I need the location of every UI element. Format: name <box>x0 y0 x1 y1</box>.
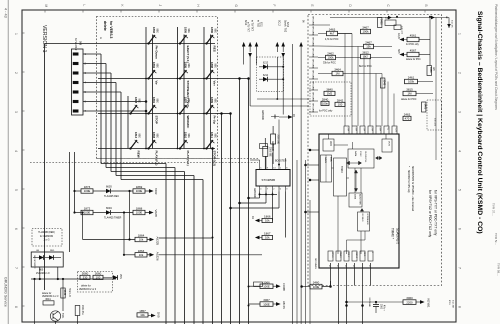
signal arrow UB-SS <box>273 303 276 305</box>
svg-text:E: E <box>310 5 314 7</box>
svg-text:for VERSION: for VERSION <box>40 236 54 238</box>
svg-text:100k: 100k <box>362 30 369 34</box>
diode 6060 <box>103 277 113 279</box>
ic TIM40 bottom pin boxes <box>328 251 333 261</box>
resistor 3843 vertical <box>381 78 385 88</box>
svg-text:10k: 10k <box>265 236 270 240</box>
svg-text:SYNC: SYNC <box>359 151 361 157</box>
svg-text:DATA: DATA <box>354 151 357 157</box>
signal stub to TU-TXT <box>248 42 252 47</box>
svg-text:Ph-Down: Ph-Down <box>155 46 159 59</box>
svg-text:SD 5: SD 5 <box>363 252 365 256</box>
wire matrix column 4 elbow to bus <box>115 83 117 176</box>
svg-text:100E: 100E <box>136 211 143 215</box>
ic wire TIM40 to pin <box>337 196 339 254</box>
ic left edge stubs <box>310 149 319 151</box>
wires B60 to rail <box>39 267 41 279</box>
svg-text:2SC2291 I-O: 2SC2291 I-O <box>36 273 50 275</box>
resistor 2068 vertical above STV <box>271 134 276 144</box>
key switch 1801 STOP <box>147 112 149 114</box>
key switch 1806 RES <box>205 42 207 44</box>
svg-text:5: 5 <box>14 189 18 191</box>
svg-text:100k: 100k <box>408 80 415 84</box>
ic sub-block DAVN IBML <box>321 155 332 182</box>
resistor 3480 small box <box>254 282 263 287</box>
wire 4567 to right vertical <box>419 54 430 56</box>
svg-text:DAVN: DAVN <box>324 157 327 163</box>
right area connecting wires <box>318 24 330 26</box>
right vertical wire 436 <box>435 18 437 161</box>
wire from connector pin 1 <box>83 53 101 55</box>
svg-text:6211: 6211 <box>260 22 262 28</box>
signal stub 5V <box>299 42 303 47</box>
svg-text:100E: 100E <box>84 211 91 215</box>
capacitor 2065 <box>274 115 276 119</box>
svg-text:H: H <box>196 5 200 7</box>
svg-text:for POC only: for POC only <box>319 110 333 113</box>
resistor 1863 10k <box>124 254 135 256</box>
svg-text:GROUNDS: GROUNDS <box>314 258 316 269</box>
svg-text:delete for: delete for <box>42 292 52 295</box>
svg-text:for VPS-TXT or PDC-TXT only: for VPS-TXT or PDC-TXT only <box>434 190 438 236</box>
wire vertical net mid 3 <box>82 213 84 240</box>
wire 3461 up to rail <box>429 17 431 66</box>
wires below IC <box>330 263 332 286</box>
svg-text:2041 47u: 2041 47u <box>81 305 83 315</box>
bus vertical wire 8 <box>230 114 232 324</box>
box 4567 delete for POC <box>407 52 419 56</box>
svg-text:VCSI: VCSI <box>395 128 397 133</box>
ic internal double arrow PLL to VCO <box>376 156 383 159</box>
ic internal double arrow ADJUSTER to I2C <box>360 209 363 213</box>
svg-text:100: 100 <box>338 103 343 107</box>
bus vertical wire 7 <box>221 114 223 324</box>
dashed box delete for VERS.3 keyboard matrix <box>97 17 218 159</box>
svg-text:GROUND: GROUND <box>312 48 314 58</box>
arrow left 4561 <box>404 39 407 41</box>
svg-text:6604: 6604 <box>106 206 112 210</box>
connector pin 1 <box>73 53 78 56</box>
svg-text:WIND/FF: WIND/FF <box>186 116 190 129</box>
resistor 1872 100E <box>73 211 75 213</box>
wires below IC continuing to bottom edge <box>338 286 340 324</box>
svg-text:6213: 6213 <box>263 63 269 65</box>
svg-text:10k: 10k <box>139 238 144 242</box>
matrix column wire extra <box>127 96 129 149</box>
svg-text:SDA5645/5680 for VPS/PDC + lin: SDA5645/5680 for VPS/PDC + line download <box>411 166 414 212</box>
signal arrow VCR <box>145 190 149 192</box>
svg-text:3465: 3465 <box>380 19 384 25</box>
resistor 3463 4k7 <box>327 31 338 35</box>
arrow left 4567 <box>404 54 407 56</box>
svg-text:SDA5642-5: SDA5642-5 <box>396 228 400 244</box>
wire from connector pin 6 <box>83 101 146 103</box>
ic STV pins bottom <box>259 186 261 192</box>
signal arrow DV5 <box>148 315 151 317</box>
wire vertical net left B <box>74 152 76 213</box>
arrow on top rail 1 <box>388 16 392 20</box>
svg-text:SCL2: SCL2 <box>278 20 280 27</box>
resistor 1041 vertical <box>61 288 65 298</box>
svg-text:for POC only: for POC only <box>406 44 420 46</box>
svg-text:100E: 100E <box>136 189 143 193</box>
svg-text:100E: 100E <box>263 285 270 289</box>
svg-text:3: 3 <box>14 111 18 113</box>
diode 6214 in AV box <box>259 78 263 80</box>
svg-text:A5226: A5226 <box>156 252 160 261</box>
wire STV bottom rail <box>260 193 278 195</box>
svg-text:COMB: COMB <box>282 283 286 291</box>
svg-text:GROUND: GROUND <box>261 110 263 120</box>
wire vertical net mid 2 <box>123 213 125 255</box>
arrow A left 1867 <box>260 237 263 239</box>
resistor 3465 vertical <box>378 18 382 28</box>
svg-text:KEYB1: KEYB1 <box>427 299 431 308</box>
signal arrow VA28 <box>145 212 149 214</box>
wire vertical net mid <box>129 191 131 240</box>
ic sub-block TIM40 <box>334 158 347 196</box>
bus vertical wire 10 <box>248 79 250 324</box>
wires STV bottom to bus <box>249 197 260 199</box>
svg-text:99E: 99E <box>213 99 216 104</box>
svg-text:6214: 6214 <box>263 75 269 77</box>
key switch 1802 Ph-Down <box>147 42 149 44</box>
svg-text:M: M <box>44 5 48 8</box>
wire matrix column 2 elbow to bus <box>105 64 107 168</box>
svg-text:7467: 7467 <box>385 18 391 20</box>
svg-text:ADJUSTER: ADJUSTER <box>359 194 362 205</box>
svg-text:SDA 3: SDA 3 <box>339 252 342 257</box>
arrow down pair <box>248 53 252 58</box>
ic U STV4056B body <box>256 170 290 187</box>
ic sub-block I2C BUS INTERFACE <box>358 212 370 231</box>
wire 3460 connections <box>302 286 310 288</box>
capacitor 7467 <box>385 20 396 26</box>
svg-text:VERSION 2 or 3: VERSION 2 or 3 <box>42 296 59 298</box>
capacitor 2463 <box>403 116 411 120</box>
svg-text:GROUND: GROUND <box>312 26 314 36</box>
capacitor 2840 <box>321 101 329 105</box>
svg-text:STOP: STOP <box>155 116 159 124</box>
svg-text:I2C-BUS: I2C-BUS <box>361 214 363 223</box>
wire h y106 <box>250 105 309 107</box>
resistor 3840 <box>324 91 335 95</box>
svg-text:for VPS+TU2 or PDC+TU2 only: for VPS+TU2 or PDC+TU2 only <box>428 190 432 238</box>
bottom dashed edge continuation <box>306 285 442 287</box>
diode 6213 in AV box <box>259 66 263 68</box>
svg-text:STV4056B: STV4056B <box>262 178 276 182</box>
svg-text:330: 330 <box>83 276 88 280</box>
svg-text:5V: 5V <box>301 20 303 23</box>
svg-text:AS: AS <box>251 216 254 220</box>
ic sub-block DATA ADJUSTER <box>349 193 362 207</box>
dashed box TLA4435 RED for VERSION 2 or 3 <box>32 229 62 247</box>
svg-text:2066 99E: 2066 99E <box>269 147 271 157</box>
svg-text:DV5: DV5 <box>157 312 161 318</box>
key switch 1812 REW <box>129 147 131 149</box>
resistor 1869 100E <box>111 190 133 192</box>
wire 2200 row to IC drop <box>347 301 404 303</box>
vertical wires down to IC top <box>344 34 346 127</box>
mid vertical wires to bottom <box>292 44 294 324</box>
wire row A5225 to bus <box>159 237 213 239</box>
resistor 2066 vertical above STV <box>263 146 268 156</box>
box 4561 for POC only <box>407 37 419 41</box>
ic wire UCO up to pin box <box>328 134 330 139</box>
svg-text:VERSION 1: VERSION 1 <box>41 25 47 53</box>
resistor 1864 10k <box>83 239 135 241</box>
svg-text:4k7: 4k7 <box>330 32 335 36</box>
svg-text:4: 4 <box>458 150 462 152</box>
resistor 3464 1M <box>332 71 343 75</box>
signal arrow COMB <box>273 285 276 287</box>
svg-text:99E: 99E <box>213 64 216 69</box>
svg-text:CLOCK P.LL: CLOCK P.LL <box>364 151 366 163</box>
svg-text:Pr-Up: Pr-Up <box>213 116 217 124</box>
svg-text:TLW 1-O: TLW 1-O <box>68 288 70 297</box>
resistor 1867 10k <box>262 235 273 239</box>
svg-text:Platinenabbildungen und Schalt: Platinenabbildungen und Schaltpläne / La… <box>494 4 498 110</box>
svg-text:delete for POC: delete for POC <box>406 58 421 61</box>
matrix row wire B <box>98 78 215 80</box>
signal arrow A5226 <box>147 254 150 256</box>
svg-text:99E: 99E <box>187 99 190 104</box>
svg-text:GROUND: GROUND <box>271 141 273 151</box>
svg-text:2 or 3: 2 or 3 <box>44 240 50 242</box>
dashed box for POC only <box>310 82 351 116</box>
key switch 1813 STOP <box>129 112 131 114</box>
svg-text:4 - 43: 4 - 43 <box>4 8 8 18</box>
svg-text:delete for: delete for <box>81 285 91 288</box>
wire vertical x34.5 <box>34 279 36 317</box>
svg-text:6: 6 <box>14 228 18 230</box>
connector pin 3 <box>73 72 78 75</box>
resistor 3060 100E <box>93 275 103 279</box>
svg-text:GROUND: GROUND <box>312 92 314 102</box>
svg-text:4,7k for POC: 4,7k for POC <box>325 38 339 41</box>
svg-text:TVR 58...: TVR 58... <box>497 263 500 276</box>
svg-text:10k: 10k <box>265 219 270 223</box>
svg-text:A5225: A5225 <box>156 237 160 246</box>
svg-text:2068 99E: 2068 99E <box>276 135 278 145</box>
svg-text:B: B <box>424 5 428 7</box>
svg-text:UCO: UCO <box>329 141 331 146</box>
ground stub labels left edge <box>309 24 318 26</box>
diode 6604 TLA4425 <box>93 212 106 214</box>
svg-text:DATA: DATA <box>354 194 357 200</box>
resistor 3467 100k <box>361 29 371 33</box>
svg-text:100k: 100k <box>327 56 334 60</box>
svg-text:TL/A4435 (RED): TL/A4435 (RED) <box>38 231 55 234</box>
svg-text:GROUND: GROUND <box>253 188 255 198</box>
svg-text:3843: 3843 <box>383 80 387 86</box>
wire matrix column 1 elbow to bus <box>100 54 102 164</box>
svg-text:Signal-Chassis – Bedieneinheit: Signal-Chassis – Bedieneinheit | Keyboar… <box>476 11 483 234</box>
matrix row wire A <box>45 43 216 45</box>
LED diode right in B60 <box>49 255 54 260</box>
key switch 1803 PLAY (F.2) <box>147 147 149 149</box>
svg-text:99E: 99E <box>137 134 140 139</box>
wire vertical x63 <box>62 279 64 311</box>
signal arrow A5 right of cap <box>279 116 288 118</box>
resistor 1873 100E <box>73 190 75 192</box>
svg-text:VPS 6: VPS 6 <box>331 252 333 257</box>
wire B60 top link <box>44 244 46 253</box>
svg-text:from V5: from V5 <box>451 20 454 28</box>
svg-text:L: L <box>82 5 86 7</box>
svg-text:TVR 5r...: TVR 5r... <box>494 233 498 245</box>
bus vertical wire 6 <box>212 149 214 324</box>
resistor 5060 330E <box>80 275 90 279</box>
transistor T041 <box>50 311 60 321</box>
svg-text:GROUND: GROUND <box>368 298 370 308</box>
svg-text:TIM40 *: TIM40 * <box>391 228 395 240</box>
svg-text:100E: 100E <box>263 302 270 306</box>
matrix row wire D <box>98 148 215 150</box>
svg-text:8: 8 <box>14 306 18 308</box>
wire from connector pin 4 <box>83 82 116 84</box>
matrix column wire <box>203 27 205 149</box>
svg-text:RED: RED <box>50 250 55 252</box>
wire row A5226 to bus <box>159 254 262 256</box>
svg-text:UB-SS: UB-SS <box>282 301 286 309</box>
resistor 3460 100E <box>310 284 322 289</box>
svg-text:INTERFACE: INTERFACE <box>366 214 369 226</box>
wire 3463 <box>318 33 327 35</box>
ic TIM40 top pin boxes <box>344 126 349 134</box>
ic sub-block UCO <box>323 139 334 151</box>
svg-text:1M: 1M <box>336 72 341 76</box>
svg-text:7: 7 <box>458 267 462 269</box>
svg-text:TLA4425 TIMER: TLA4425 TIMER <box>104 216 122 219</box>
svg-text:100E: 100E <box>84 189 91 193</box>
connector KSMD body <box>72 49 84 115</box>
key switch 1808 Va+ <box>205 77 207 79</box>
svg-text:1461: 1461 <box>424 104 428 110</box>
svg-text:C&C 4: C&C 4 <box>355 252 357 258</box>
svg-text:1M2: 1M2 <box>327 92 333 96</box>
dashed line below matrix 2 <box>30 162 258 164</box>
resistor 3041 <box>43 301 54 305</box>
wire left drop to frame <box>44 44 46 291</box>
signal stub Synch. TU2 <box>281 42 285 47</box>
svg-text:4: 4 <box>14 150 18 152</box>
svg-text:99E: 99E <box>187 29 190 34</box>
svg-text:REW: REW <box>137 151 141 158</box>
arrow A left 1866 <box>260 220 263 222</box>
capacitor 2041 vertical <box>75 306 80 316</box>
connector pin 4 <box>73 81 78 84</box>
svg-text:2: 2 <box>458 72 462 74</box>
svg-text:SDA5642 for VPS only: SDA5642 for VPS only <box>407 170 410 193</box>
svg-text:IBML: IBML <box>330 157 332 163</box>
matrix column wire pair <box>210 35 212 149</box>
wire from connector pin 7 <box>83 110 146 112</box>
arrow KEYB1 <box>416 301 420 303</box>
svg-text:6603: 6603 <box>106 185 112 189</box>
signal stub SCL2 <box>276 42 280 47</box>
svg-text:BOOSTER: BOOSTER <box>275 161 287 163</box>
wire vertical net left A <box>68 152 70 252</box>
diode 6603 TLA4425 <box>93 190 106 192</box>
long wire y286 <box>322 286 331 288</box>
svg-text:99E: 99E <box>155 64 158 69</box>
svg-text:1041: 1041 <box>63 290 67 296</box>
svg-text:15k: 15k <box>366 45 371 49</box>
svg-text:99E: 99E <box>213 134 216 139</box>
resistor 3066 100E row <box>249 285 261 287</box>
svg-text:A3,20: A3,20 <box>397 33 400 40</box>
svg-text:1: 1 <box>14 33 18 35</box>
svg-text:8: 8 <box>458 306 462 308</box>
dashed box VPS PDC module <box>308 15 442 286</box>
svg-text:to TU2: to TU2 <box>257 20 260 28</box>
wire 4561 to right vertical <box>419 39 430 41</box>
svg-text:TVR 37...: TVR 37... <box>492 203 496 216</box>
svg-text:NO VPS/PDC: NO VPS/PDC <box>33 256 35 270</box>
svg-text:1: 1 <box>458 33 462 35</box>
wires STV bottom drops <box>259 192 261 199</box>
matrix column wire pair <box>152 35 154 149</box>
svg-text:1M: 1M <box>408 92 413 96</box>
dashed box delete for VERSION 2 or 3 <box>78 272 113 293</box>
key switch 1811 STOP (V.2) <box>205 147 207 149</box>
resistor 1868 100E <box>111 212 133 214</box>
svg-text:TLA4425 REC: TLA4425 REC <box>104 195 119 198</box>
svg-text:F: F <box>272 5 276 7</box>
stub UF from V5 <box>448 18 450 29</box>
svg-text:99E: 99E <box>137 99 140 104</box>
dashed line below matrix <box>97 158 259 160</box>
svg-text:VERSION 2 or 3: VERSION 2 or 3 <box>79 288 97 291</box>
svg-text:from CB: from CB <box>452 300 455 308</box>
key switch 1807 WIND/FF <box>179 112 181 114</box>
matrix row wire C <box>98 113 215 115</box>
ic STV pins top <box>259 164 261 170</box>
wire stubs bottom left <box>34 317 36 324</box>
svg-text:GROUND: GROUND <box>312 103 314 113</box>
svg-text:a-TU-TXT: a-TU-TXT <box>247 22 249 33</box>
matrix row B extension <box>215 78 249 80</box>
ic TIM40 SDA5642 body <box>319 134 399 268</box>
resistor 2842 <box>335 102 345 106</box>
wire left of IC vertical 305-312 <box>305 160 307 324</box>
resistor 3060 2200 <box>403 300 416 305</box>
wires STV top to nets <box>259 160 261 164</box>
svg-text:100: 100 <box>96 276 101 280</box>
svg-text:GROUND: GROUND <box>312 70 314 80</box>
matrix column wire <box>177 27 179 149</box>
svg-text:GRUNDIG Service: GRUNDIG Service <box>4 277 8 307</box>
resistor 2467 <box>364 44 374 48</box>
resistor 3812 <box>361 54 371 58</box>
svg-text:Synch. TU2: Synch. TU2 <box>283 20 285 33</box>
led module B60 body <box>31 252 63 267</box>
wire stub drops <box>243 52 245 65</box>
svg-text:GROUND: GROUND <box>312 37 314 47</box>
svg-text:99E: 99E <box>213 29 216 34</box>
key switch 1805 STOP/EJECT (V.2) <box>179 77 181 79</box>
svg-text:SO5: SO5 <box>397 49 399 54</box>
connector pin 7 <box>73 110 78 113</box>
dashed box not used right <box>427 100 442 130</box>
svg-text:10k: 10k <box>140 313 145 317</box>
ic internal double arrow TIM40 to PLL <box>347 161 362 165</box>
wire from connector pin 2 <box>83 63 106 65</box>
svg-text:GROUND: GROUND <box>312 59 314 69</box>
svg-text:not used: not used <box>401 26 404 35</box>
resistor 1461 vertical <box>422 102 426 112</box>
